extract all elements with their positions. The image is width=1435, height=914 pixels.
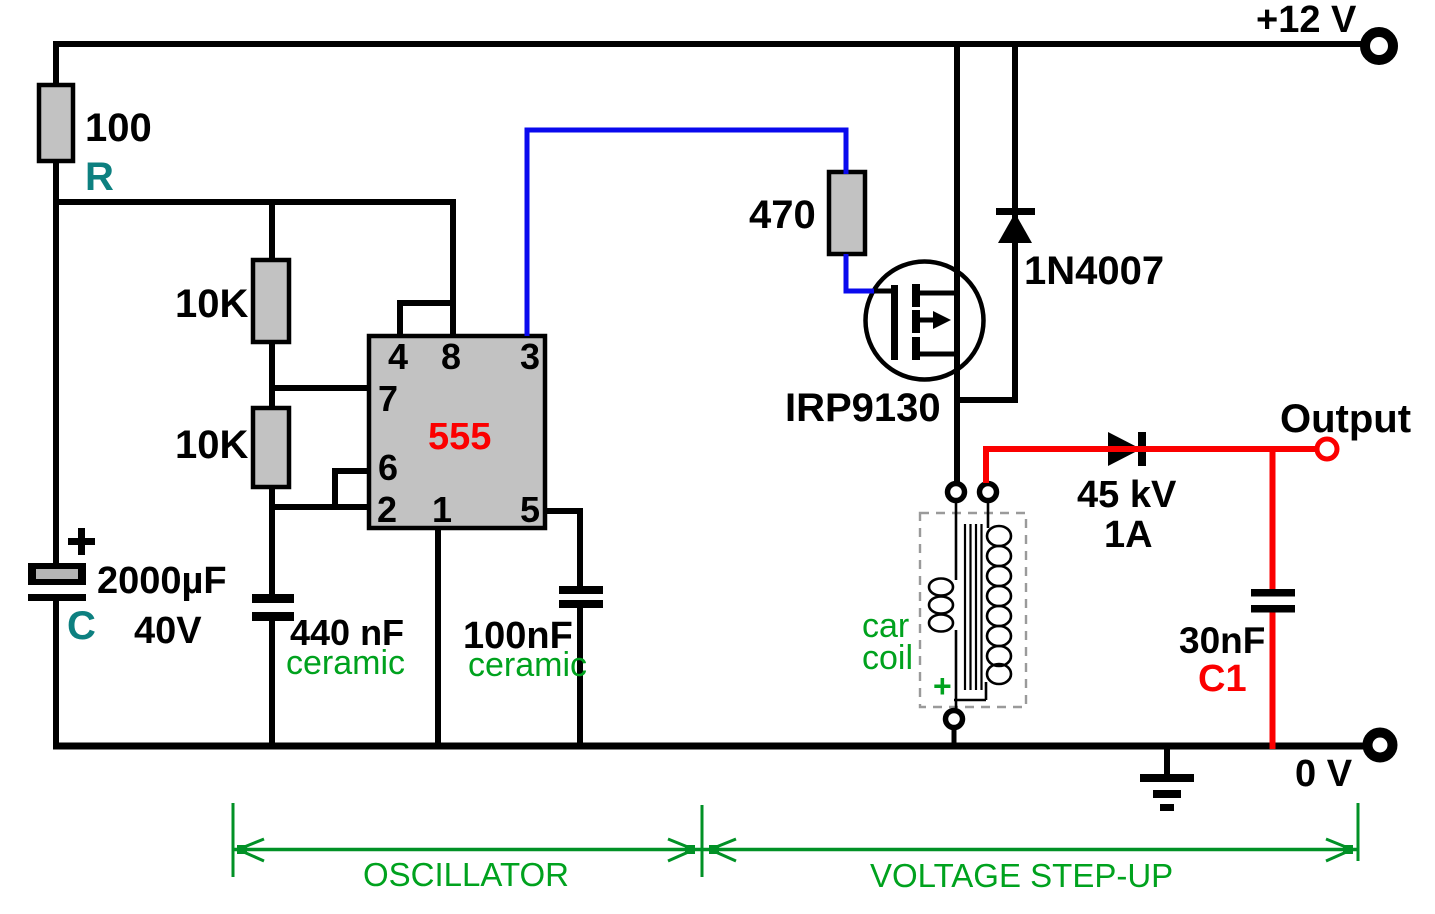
wire pin 6 of 555 <box>332 468 370 474</box>
transistor Q1 IRP9130 body circle <box>866 262 984 380</box>
resistor 10K upper <box>253 260 289 342</box>
wire blue 470 resistor to MOSFET gate <box>846 254 874 291</box>
wire pin6-pin2 link vertical <box>332 468 338 510</box>
svg-text:1: 1 <box>432 489 452 530</box>
car coil primary lead lower <box>955 630 958 712</box>
resistor 10K lower <box>253 408 289 487</box>
svg-text:IRP9130: IRP9130 <box>785 386 941 430</box>
car coil secondary lead upper <box>987 502 990 528</box>
svg-text:10K: 10K <box>175 282 248 326</box>
IC 555 timer body <box>369 336 545 528</box>
capacitor 440nF plates <box>252 594 294 603</box>
car coil secondary lead lower <box>985 682 988 700</box>
wire pin 1 to ground rail <box>435 527 441 749</box>
svg-text:C1: C1 <box>1198 658 1247 700</box>
wire red down to C1 <box>1270 446 1276 589</box>
diode D1 1N4007 triangle <box>998 213 1032 243</box>
wire pin 5 down to 100nF <box>577 508 583 589</box>
node coil bottom terminal <box>946 711 963 728</box>
transistor gate lead <box>868 289 893 294</box>
svg-text:3: 3 <box>520 336 540 377</box>
arrowhead mid pointing left <box>710 839 736 850</box>
svg-text:VOLTAGE STEP-UP: VOLTAGE STEP-UP <box>870 857 1173 894</box>
wire red output horizontal <box>983 446 1317 452</box>
transistor channel segment 2 <box>912 310 920 333</box>
node coil primary top terminal <box>948 484 965 501</box>
wire 440nF to ground rail <box>269 617 275 749</box>
transistor bulk stub with arrow <box>920 318 934 323</box>
svg-text:ceramic: ceramic <box>468 646 587 684</box>
svg-text:10K: 10K <box>175 423 248 467</box>
dimension line oscillator <box>233 848 702 852</box>
car coil primary winding loops <box>929 579 953 632</box>
wire pin 4 stub vertical <box>397 300 403 336</box>
wire left vertical rail segment R to C <box>53 160 59 566</box>
diode D2 45kV triangle <box>1108 432 1141 466</box>
wire coil bottom stub <box>952 728 957 748</box>
wire branch down to 10K upper <box>269 199 275 262</box>
car coil common bottom link <box>954 699 986 702</box>
dimension tick middle <box>701 805 704 877</box>
wire MOSFET drain-source vertical <box>954 41 960 484</box>
capacitor C 2000uF electrolytic top plate <box>28 563 86 585</box>
dimension line voltage step-up <box>702 848 1358 852</box>
node +12V terminal <box>1365 32 1393 60</box>
wire red C1 to 0V rail <box>1270 613 1276 750</box>
svg-text:470: 470 <box>749 193 816 237</box>
svg-text:+: + <box>933 668 952 704</box>
transistor gate bar <box>891 285 898 360</box>
svg-text:7: 7 <box>378 378 398 419</box>
svg-text:1A: 1A <box>1104 514 1153 556</box>
svg-text:100: 100 <box>85 106 152 150</box>
transistor channel segment 3 <box>912 337 920 360</box>
svg-text:45 kV: 45 kV <box>1077 474 1177 516</box>
wire pin 4 to pin 8 horizontal <box>397 300 453 306</box>
arrowhead left pointing left <box>238 839 264 850</box>
dimension tick right <box>1357 803 1360 861</box>
svg-text:555: 555 <box>428 416 491 458</box>
svg-text:1N4007: 1N4007 <box>1024 249 1164 293</box>
arrowhead right pointing right <box>1326 839 1352 850</box>
wire red coil secondary to output line <box>983 446 989 483</box>
resistor R 100 ohm <box>39 85 73 161</box>
svg-text:2: 2 <box>377 489 397 530</box>
wire pin 2 of 555 <box>272 504 370 510</box>
wire 100nF to ground rail <box>577 606 583 749</box>
resistor 470 ohm <box>829 172 865 254</box>
svg-text:coil: coil <box>862 639 913 677</box>
dimension tick left <box>232 803 235 877</box>
wire bottom 0V rail <box>53 743 1366 750</box>
svg-text:ceramic: ceramic <box>286 644 405 682</box>
svg-text:8: 8 <box>441 336 461 377</box>
wire pin 5 horizontal <box>544 508 583 514</box>
wire top +12V rail <box>53 41 1362 47</box>
wire between 10K resistors (pin7 node) <box>269 341 275 409</box>
svg-text:30nF: 30nF <box>1179 620 1265 661</box>
wire left vertical rail segment C to bottom <box>53 597 59 749</box>
wire vertical to pin 8 <box>450 199 456 336</box>
wire left vertical rail segment above R <box>53 41 59 86</box>
capacitor C1 30nF plates <box>1251 589 1295 597</box>
node Output terminal <box>1317 439 1337 459</box>
svg-text:0 V: 0 V <box>1295 753 1353 795</box>
wire 1N4007 bottom to MOSFET node <box>954 397 1018 403</box>
node 0V terminal <box>1368 733 1393 758</box>
svg-text:Output: Output <box>1280 397 1411 441</box>
car coil primary lead upper <box>955 502 958 580</box>
wire 10K lower to 440nF <box>269 486 275 598</box>
capacitor 100nF plates <box>559 586 603 594</box>
node coil secondary top terminal <box>980 484 997 501</box>
arrowhead mid pointing right <box>668 839 694 850</box>
svg-text:OSCILLATOR: OSCILLATOR <box>363 856 569 893</box>
wire horizontal branch to 555 supply <box>53 199 456 205</box>
svg-text:5: 5 <box>520 489 540 530</box>
svg-text:+12 V: +12 V <box>1256 0 1357 41</box>
svg-text:C: C <box>67 604 96 648</box>
transistor channel segment 1 <box>912 284 920 307</box>
capacitor C 2000uF bottom plate <box>28 594 86 601</box>
transistor drain stub bottom <box>920 352 957 357</box>
diode D2 45kV cathode bar <box>1138 432 1146 466</box>
car coil core lines <box>965 524 982 690</box>
svg-text:R: R <box>85 155 114 199</box>
ground symbol <box>1164 746 1170 777</box>
svg-text:4: 4 <box>388 336 408 377</box>
wire pin 7 of 555 <box>272 385 370 391</box>
wire 1N4007 branch vertical <box>1012 41 1018 403</box>
wire blue 555 output pin3 to 470 resistor <box>527 130 846 336</box>
car coil secondary winding loops <box>987 526 1011 684</box>
svg-text:2000µF: 2000µF <box>97 560 227 602</box>
svg-text:6: 6 <box>378 447 398 488</box>
car coil dashed outline box <box>920 513 1026 707</box>
capacitor C plus sign <box>68 538 95 545</box>
transistor source stub top <box>920 291 957 296</box>
svg-text:40V: 40V <box>134 610 202 652</box>
diode D1 1N4007 cathode bar <box>996 208 1035 215</box>
